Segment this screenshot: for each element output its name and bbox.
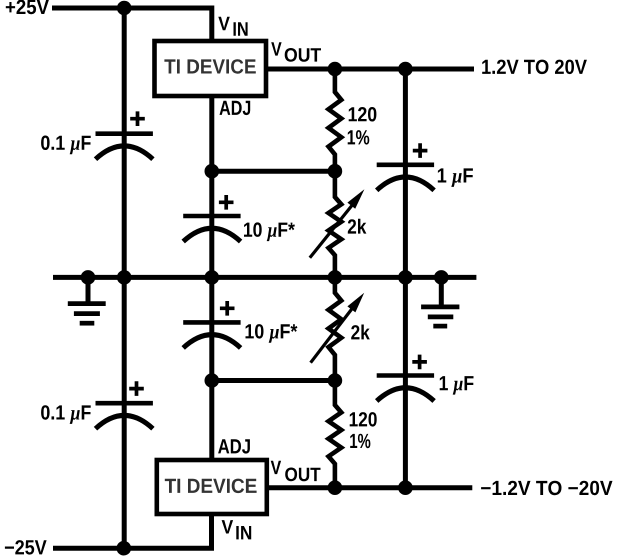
- pin VOUT upper label: [271, 42, 321, 62]
- net output -1.2V TO -20V label: [481, 481, 612, 496]
- pin ADJ upper label: [220, 101, 251, 115]
- capacitor C4 10uF lower plus sign: [220, 301, 235, 316]
- capacitor C1 0.1uF upper straight plate: [96, 131, 153, 136]
- junction ADJ upper tap: [205, 164, 220, 179]
- wire VOUT top rail: [264, 67, 474, 72]
- wire 1uF output rail: [403, 69, 408, 488]
- capacitor C2 0.1uF lower plus sign: [129, 381, 144, 396]
- junction VOUT top / 1uF rail: [398, 62, 413, 77]
- wire ADJ lower tap: [212, 378, 335, 383]
- net output 1.2V TO 20V label: [482, 60, 587, 75]
- value R1 1% label: [348, 130, 370, 145]
- junction ground rail / 1uF rail: [398, 270, 413, 285]
- capacitor C5 1uF upper straight plate: [377, 163, 434, 168]
- capacitor C6 1uF lower plus sign: [412, 355, 427, 370]
- capacitor C5 1uF upper curved plate: [377, 177, 434, 190]
- value R4 1% label: [350, 434, 370, 449]
- capacitor C5 1uF upper plus sign: [413, 143, 428, 158]
- value C4 10uF label: [246, 324, 298, 343]
- ground symbol left: [68, 277, 106, 323]
- capacitor C6 1uF lower curved plate: [377, 388, 434, 401]
- junction VOUT top / R1: [328, 62, 343, 77]
- wire left bypass rail +25V to -25V: [122, 8, 127, 548]
- wire ADJ vertical line: [209, 94, 214, 462]
- value C6 1uF label: [440, 376, 474, 395]
- net +25V label: [6, 0, 49, 14]
- regulator U2 TI DEVICE lower: [157, 460, 267, 514]
- capacitor C3 10uF upper plus sign: [219, 195, 234, 210]
- wire VOUT bottom rail: [264, 485, 472, 490]
- value R1 120 label: [349, 107, 377, 122]
- wire ADJ upper tap: [212, 169, 335, 174]
- pin VOUT lower label: [271, 461, 321, 482]
- junction ground rail / pot chain: [328, 270, 343, 285]
- wire ground mid rail: [53, 275, 476, 280]
- capacitor C3 10uF upper curved plate: [183, 228, 240, 241]
- junction VOUT bottom / R4: [328, 480, 343, 495]
- value R3 2k label: [351, 325, 370, 340]
- capacitor C3 10uF upper straight plate: [183, 214, 240, 219]
- value C1 0.1uF label: [41, 136, 91, 155]
- junction ground rail / right ground: [434, 270, 449, 285]
- value R4 120 label: [350, 412, 377, 427]
- value C3 10uF label: [244, 222, 295, 241]
- junction ADJ lower tap: [205, 373, 220, 388]
- potentiometer R3 arrow: [311, 293, 365, 363]
- wire -25V bottom rail into VIN: [53, 512, 212, 548]
- resistor R4 120 1% lower: [329, 381, 342, 488]
- pin VIN upper label: [218, 17, 247, 36]
- potentiometer R2 2k upper: [329, 171, 342, 277]
- net -25V label: [5, 540, 47, 555]
- capacitor C2 0.1uF lower curved plate: [96, 415, 153, 428]
- junction R3 / R4: [328, 373, 343, 388]
- value R2 2k label: [348, 219, 367, 234]
- value C5 1uF label: [438, 168, 473, 187]
- regulator U1 TI DEVICE upper: [155, 41, 267, 96]
- junction R1 / R2: [328, 164, 343, 179]
- junction VOUT bottom / 1uF rail: [398, 480, 413, 495]
- potentiometer R3 2k lower: [329, 277, 342, 380]
- capacitor C1 0.1uF upper plus sign: [130, 111, 145, 126]
- wire +25V top rail into VIN: [52, 8, 212, 44]
- value C2 0.1uF label: [41, 405, 91, 424]
- capacitor C4 10uF lower curved plate: [183, 335, 240, 348]
- pin VIN lower label: [222, 520, 252, 539]
- junction ground rail / ADJ rail: [205, 270, 220, 285]
- capacitor C2 0.1uF lower straight plate: [96, 401, 153, 406]
- junction bottom rail / left rail: [117, 541, 132, 556]
- junction ground rail / left ground: [81, 270, 96, 285]
- ground symbol right: [421, 277, 459, 326]
- junction top rail / left rail: [117, 1, 132, 16]
- capacitor C1 0.1uF upper curved plate: [96, 146, 153, 159]
- capacitor C6 1uF lower straight plate: [377, 373, 434, 378]
- junction ground rail / left rail: [117, 270, 132, 285]
- pin ADJ lower label: [218, 439, 250, 453]
- potentiometer R2 arrow: [310, 189, 365, 257]
- resistor R1 120 1% upper: [329, 69, 342, 171]
- capacitor C4 10uF lower straight plate: [183, 320, 240, 325]
